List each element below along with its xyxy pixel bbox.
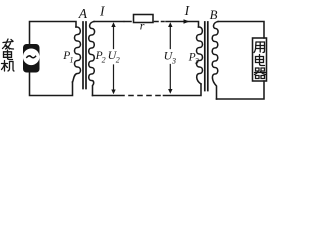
发 bbox=[3, 39, 14, 49]
svg-text:2: 2 bbox=[116, 56, 120, 65]
wire: transmission bottom dashed bbox=[129, 95, 160, 97]
svg-text:r: r bbox=[140, 19, 145, 33]
resistor r box bbox=[134, 15, 154, 23]
current arrowhead I (right section) bbox=[184, 19, 190, 24]
wire: transmission top solid (right part) bbox=[166, 22, 199, 28]
器 bbox=[255, 68, 266, 79]
transformer U2 primary winding P3 (loops) bbox=[197, 27, 203, 84]
wire: generator loop top bbox=[30, 22, 77, 45]
voltage arrow U2 (between wires) bbox=[111, 22, 115, 94]
transformer U1 core bars bbox=[82, 22, 84, 89]
load box (appliance) bbox=[253, 38, 267, 81]
svg-text:3: 3 bbox=[194, 57, 199, 66]
wire: generator loop bottom bbox=[30, 73, 73, 96]
voltage arrow U3 (between wires) bbox=[168, 22, 172, 94]
label 用电器 (appliance) hand strokes bbox=[254, 42, 266, 79]
transformer U1 primary winding P1 (loops) bbox=[73, 27, 81, 82]
generator circle with ~ bbox=[23, 49, 40, 66]
transformer U2 secondary winding (loops) bbox=[212, 22, 218, 100]
用 bbox=[254, 42, 265, 53]
svg-text:B: B bbox=[210, 8, 218, 22]
transformer U1 secondary winding P2 (loops) bbox=[89, 22, 95, 96]
transformer U2 core bars bbox=[204, 22, 206, 91]
电 bbox=[256, 55, 265, 66]
svg-text:A: A bbox=[78, 6, 88, 21]
wire: transmission top solid (left part) bbox=[94, 21, 124, 23]
svg-text:1: 1 bbox=[70, 55, 74, 64]
svg-text:3: 3 bbox=[171, 56, 176, 65]
label 发电机 (generator) hand strokes bbox=[2, 39, 15, 71]
电 bbox=[4, 50, 13, 60]
wire: transmission top dashed after resistor bbox=[155, 21, 165, 23]
wire: transmission top dashed to resistor bbox=[125, 21, 132, 23]
generator G body bbox=[23, 44, 40, 73]
wire: load loop top bbox=[218, 22, 264, 39]
wire: transmission bottom solid (right part) bbox=[164, 84, 202, 96]
svg-text:2: 2 bbox=[102, 55, 106, 64]
机 bbox=[2, 61, 15, 72]
wire: load loop bottom bbox=[217, 81, 265, 99]
wire: transmission bottom solid (left part) bbox=[93, 95, 125, 97]
